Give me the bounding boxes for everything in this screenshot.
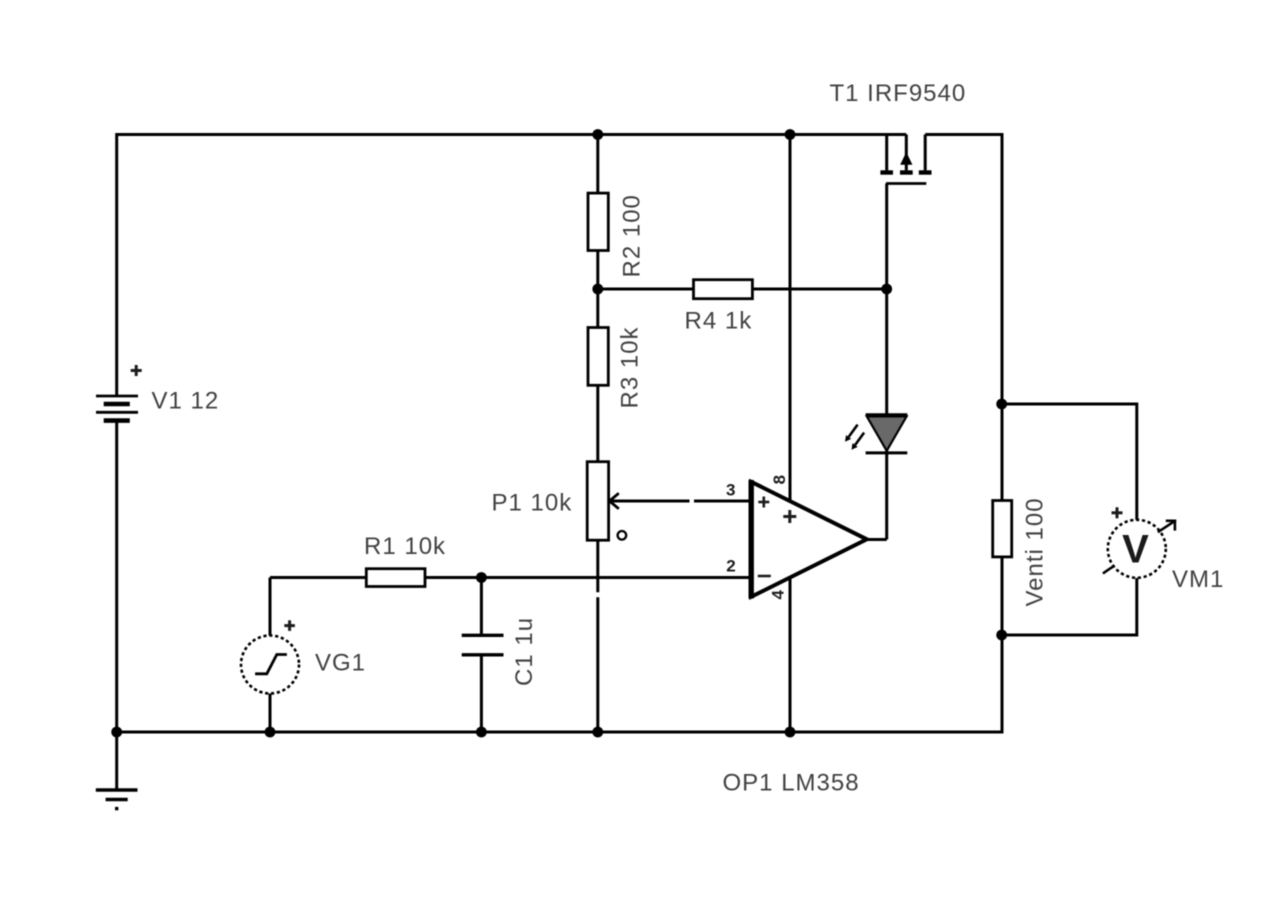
svg-text:3: 3 (726, 481, 735, 500)
svg-text:8: 8 (770, 475, 789, 484)
svg-text:P1 10k: P1 10k (492, 490, 573, 517)
svg-text:4: 4 (768, 590, 787, 600)
svg-text:R4 1k: R4 1k (685, 308, 753, 335)
svg-text:OP1 LM358: OP1 LM358 (723, 770, 860, 797)
svg-text:VM1: VM1 (1172, 566, 1224, 593)
svg-text:R3 10k: R3 10k (617, 326, 644, 408)
svg-text:V: V (1122, 528, 1149, 572)
svg-text:T1 IRF9540: T1 IRF9540 (830, 80, 967, 107)
svg-text:C1 1u: C1 1u (511, 617, 538, 686)
svg-text:Venti 100: Venti 100 (1021, 497, 1048, 606)
svg-text:R1 10k: R1 10k (364, 533, 446, 560)
svg-text:2: 2 (726, 557, 735, 576)
svg-text:VG1: VG1 (315, 650, 366, 677)
svg-text:R2 100: R2 100 (619, 194, 646, 277)
svg-text:V1 12: V1 12 (152, 388, 220, 415)
